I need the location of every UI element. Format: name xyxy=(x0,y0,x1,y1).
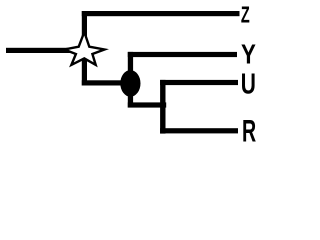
wire stem to U-R clade xyxy=(128,102,166,107)
node filled circle marker xyxy=(120,70,140,97)
wire vertical of U-R clade xyxy=(160,80,165,134)
svg-text:Z: Z xyxy=(241,3,250,28)
wire root branch xyxy=(6,48,87,53)
svg-text:U: U xyxy=(241,68,256,100)
wire branch to tip U xyxy=(160,80,238,85)
node star marker at root xyxy=(64,32,104,65)
wire vertical at inner node xyxy=(128,52,133,108)
wire vertical trunk at root node xyxy=(82,11,87,86)
wire stem to inner node xyxy=(82,80,131,85)
wire branch to tip Y xyxy=(128,52,237,57)
wire branch to tip Z xyxy=(82,11,240,16)
svg-text:R: R xyxy=(242,113,256,149)
wire branch to tip R xyxy=(160,128,238,133)
svg-text:Y: Y xyxy=(241,39,256,70)
